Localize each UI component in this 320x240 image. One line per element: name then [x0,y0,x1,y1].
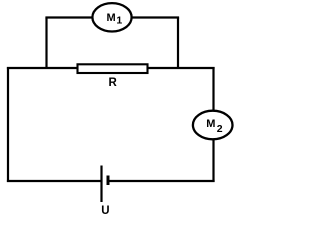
resistor R: body [78,64,148,73]
wire: bottom left (to battery long plate) [7,180,101,182]
wire: bottom right (battery to right corner) [108,180,215,182]
battery U: short thick plate (negative) [107,176,110,186]
battery U: long plate (positive) [100,166,102,203]
svg-text:M: M [107,12,116,24]
svg-text:1: 1 [116,15,122,27]
wire: top main left segment (node A to resistor) [7,67,77,69]
wire: top main right segment (resistor to right corner) [149,67,215,69]
wire: left vertical (node A to battery minus) [7,67,9,182]
svg-text:2: 2 [217,123,223,135]
meter M2: ellipse [193,111,233,140]
wire: M1 branch top right horizontal [131,16,179,18]
wire: M1 branch left vertical [45,18,47,70]
svg-text:R: R [109,77,118,89]
wire: right vertical lower (M2 to bottom corner) [212,139,214,182]
wire: M1 branch top left horizontal [45,16,93,18]
svg-text:M: M [206,118,215,130]
meter M1: ellipse [92,3,131,31]
wire: M1 branch right vertical (junction at top main wire) [177,18,179,70]
wire: right vertical upper (top corner to M2) [212,67,214,111]
svg-text:U: U [101,205,109,217]
